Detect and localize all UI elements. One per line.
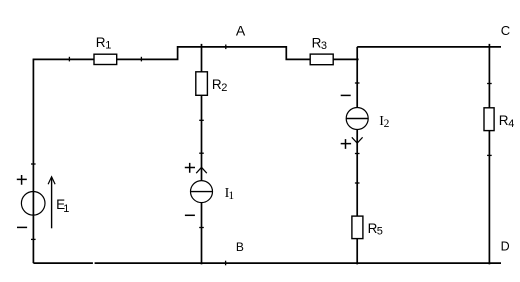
wire tick below R2 lower	[199, 152, 204, 154]
label R1	[96, 35, 112, 52]
wire tick right of R1	[140, 57, 142, 62]
wire tick on bottom rail	[225, 261, 227, 266]
E1 emf arrow	[48, 177, 55, 229]
wire bottom rail left piece	[33, 262, 93, 264]
label R2	[212, 77, 228, 94]
current source I2 circle with diameter bar	[346, 108, 368, 130]
wire I2/R5 branch vertical	[356, 47, 358, 265]
resistor R2	[196, 72, 208, 96]
resistor R4	[484, 108, 494, 131]
svg-text:4: 4	[508, 118, 514, 130]
wire left-vertical from top-left corner to bottom-left corner	[32, 59, 34, 263]
resistor R5	[352, 216, 363, 239]
I2 polarity plus sign	[341, 139, 351, 149]
wire tick below R2 upper	[199, 119, 204, 121]
svg-text:A: A	[236, 22, 246, 38]
E1 polarity minus sign	[17, 226, 27, 228]
I2 arrow head pointing down	[352, 137, 363, 143]
resistor R3	[310, 54, 333, 65]
wire tick below R4	[487, 154, 492, 156]
wire tick above R4	[487, 83, 492, 85]
I2 polarity minus sign	[341, 94, 351, 96]
wire tick on left vertical above E1	[31, 163, 36, 165]
svg-text:3: 3	[321, 40, 327, 52]
wire right vertical through R4 (node C to node D)	[488, 44, 490, 265]
label R5	[368, 221, 383, 238]
wire tick on left vertical below E1	[31, 238, 36, 240]
wire node A rail to node C rail	[357, 46, 501, 48]
svg-text:C: C	[501, 23, 510, 38]
label E1	[56, 197, 69, 215]
voltage source E1 circle	[21, 192, 45, 216]
wire tick below I2	[355, 153, 360, 155]
I1 arrow head pointing up	[196, 167, 207, 173]
I1 polarity minus sign	[185, 214, 195, 216]
wire tick above I2	[355, 82, 360, 84]
svg-text:2: 2	[221, 82, 227, 94]
wire tick below I1	[199, 227, 204, 229]
label I1	[225, 186, 235, 202]
svg-text:D: D	[501, 240, 510, 254]
E1 polarity plus sign	[17, 175, 27, 185]
wire middle branch A to B through R2 and I1	[201, 44, 203, 265]
wire bottom rail right piece to node D	[95, 262, 501, 264]
svg-text:5: 5	[377, 226, 383, 238]
svg-text:1: 1	[63, 203, 69, 215]
label R3	[312, 35, 327, 51]
svg-text:2: 2	[384, 118, 390, 130]
svg-text:B: B	[236, 240, 244, 254]
svg-text:1: 1	[228, 190, 234, 202]
wire top-left run y=59 through R1 then step up to node A rail	[33, 47, 359, 60]
svg-text:R: R	[96, 35, 106, 50]
resistor R1	[94, 54, 117, 64]
wire tick above R5	[355, 182, 360, 184]
label I2	[379, 114, 389, 130]
label R4	[499, 113, 515, 130]
svg-text:1: 1	[105, 40, 111, 52]
I1 polarity plus sign	[185, 163, 195, 173]
wire tick on node A rail	[225, 45, 227, 50]
wire tick on top-left run	[68, 57, 70, 62]
current source I1 circle with diameter bar	[191, 181, 213, 203]
